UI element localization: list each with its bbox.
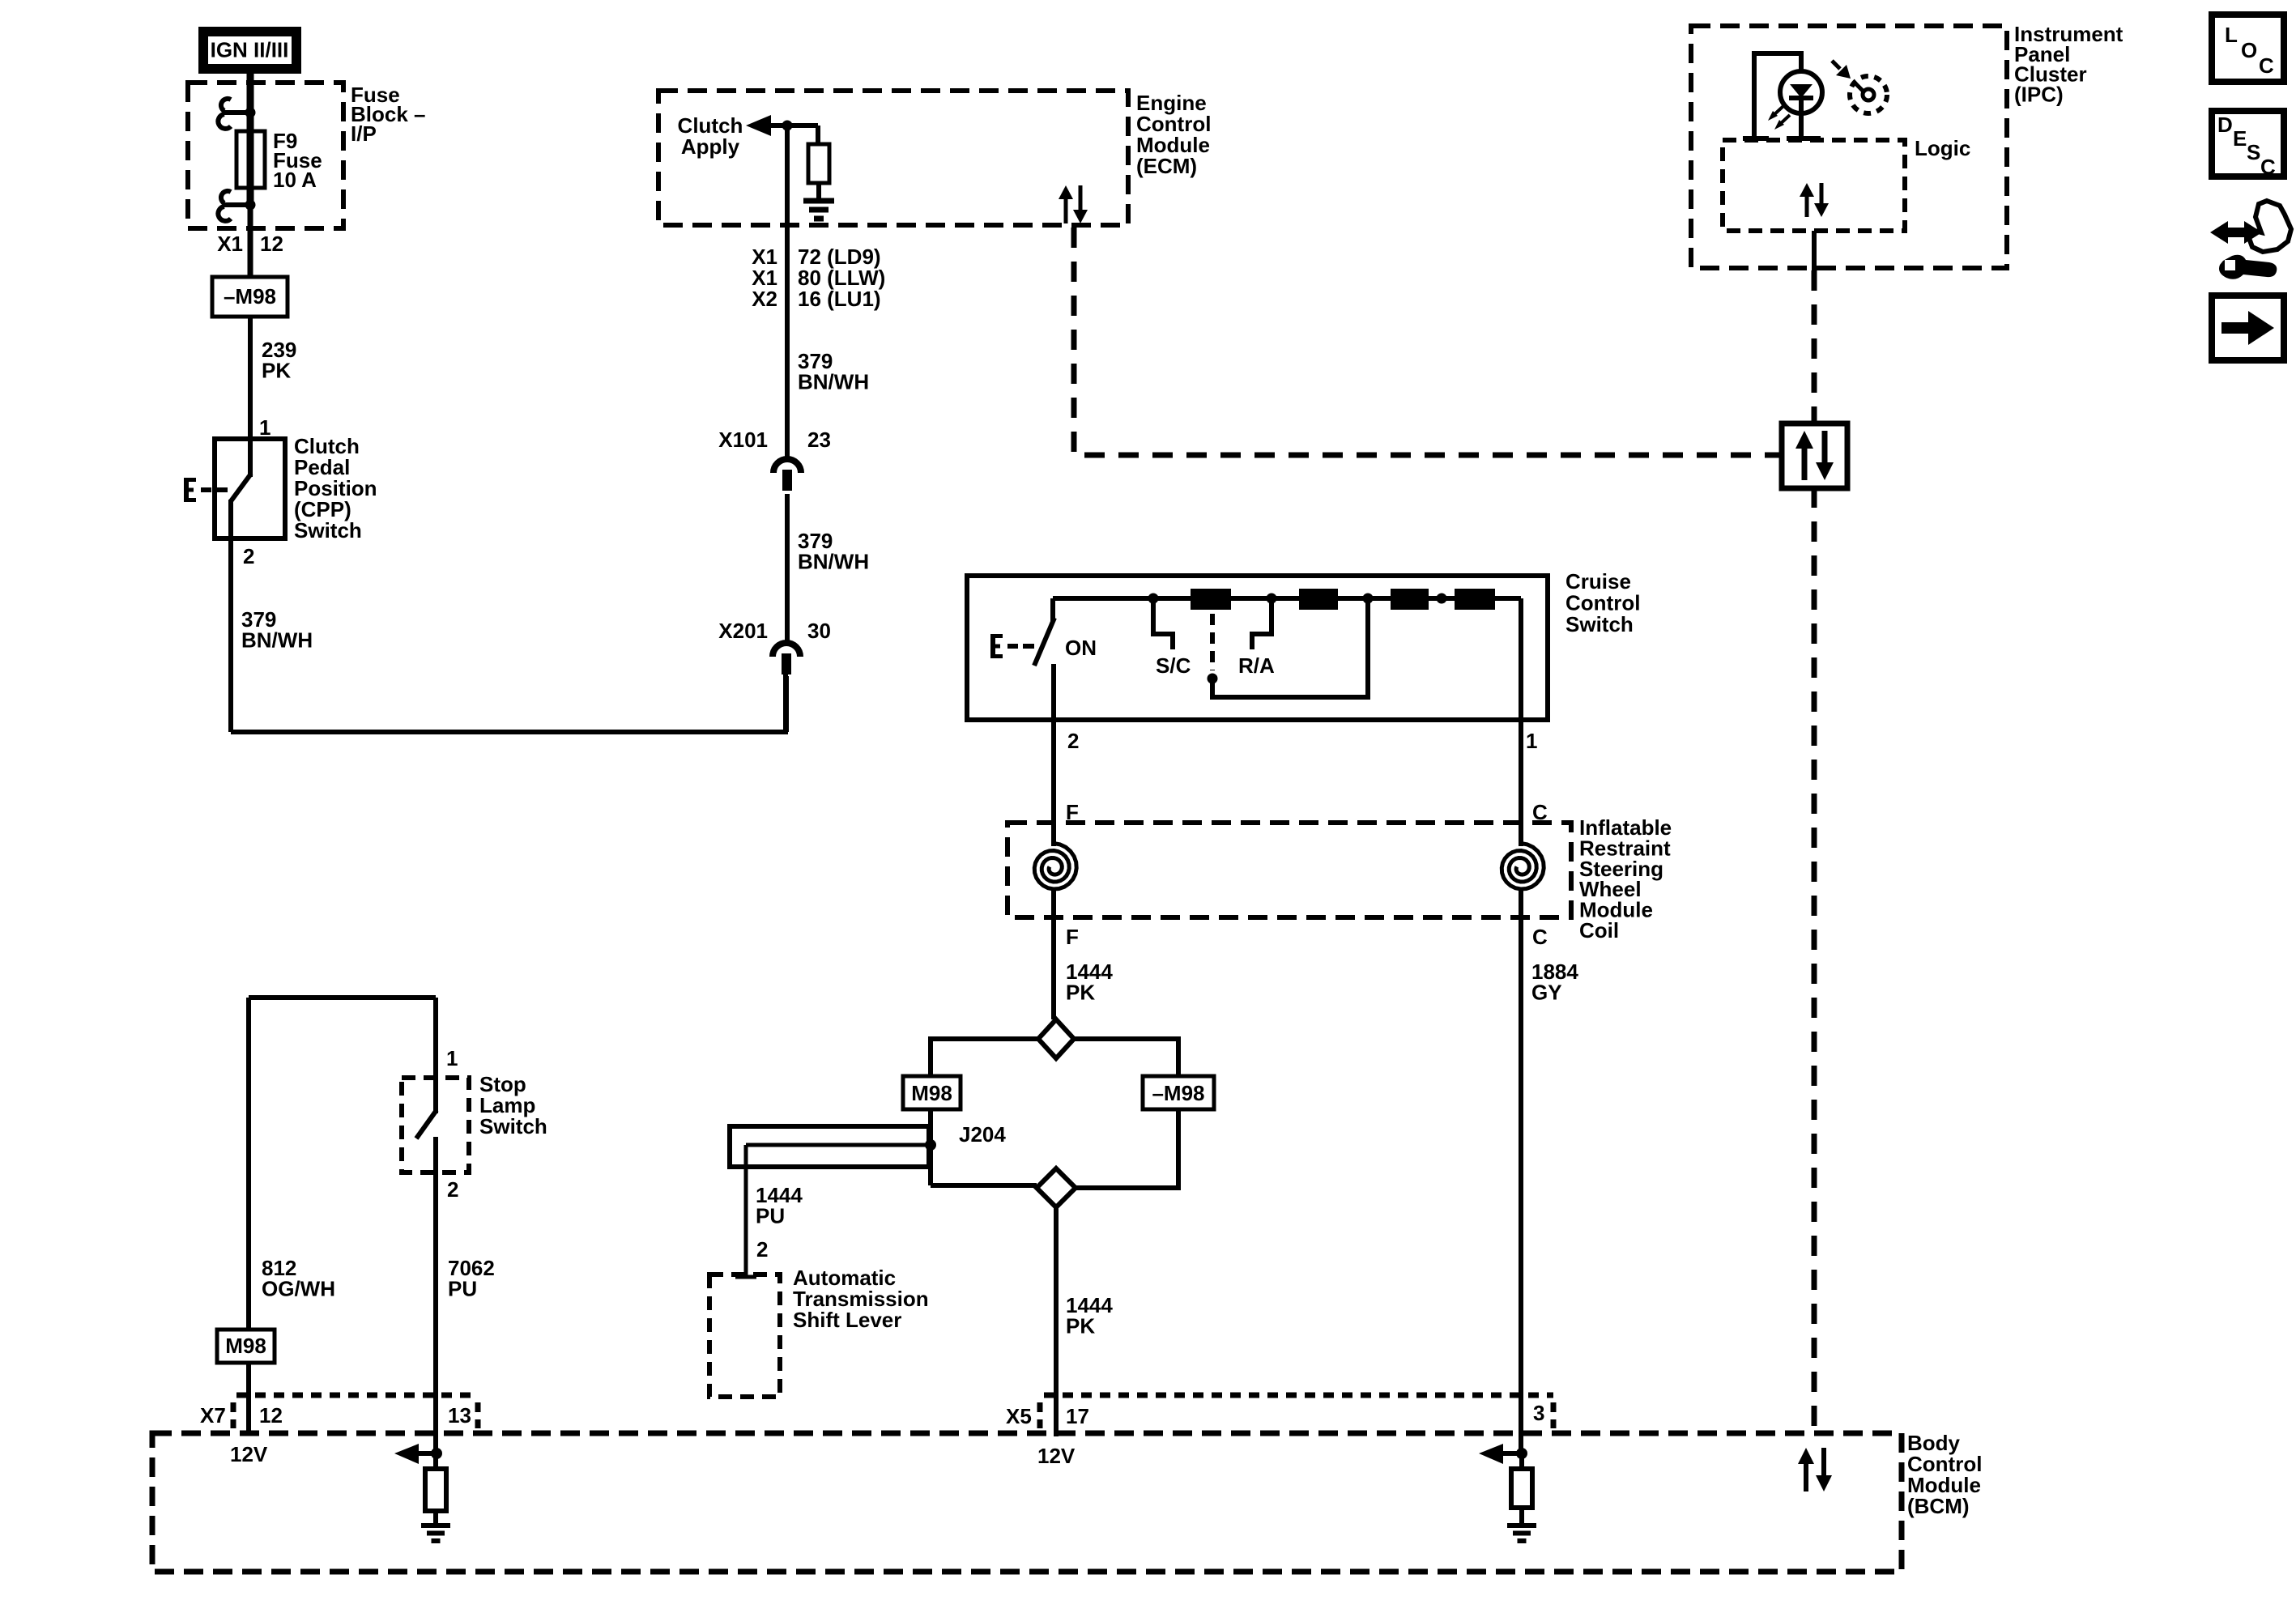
wire fuse to splice M98 <box>248 205 253 277</box>
splice box M98 (lower left) <box>217 1330 275 1363</box>
BCM pulldown wire (pin13) <box>433 1453 438 1526</box>
wire CPP to X201 jog <box>231 674 786 732</box>
wire to pull-up resistor <box>816 126 820 144</box>
svg-text:17: 17 <box>1066 1404 1089 1428</box>
left splice branch <box>931 1039 1038 1076</box>
svg-text:L: L <box>2225 23 2238 47</box>
BCM pulldown wire (pin3) <box>1519 1453 1524 1526</box>
BCM resistor (pin3) <box>1511 1469 1532 1508</box>
svg-text:PU: PU <box>448 1277 477 1301</box>
svg-text:1: 1 <box>446 1046 458 1070</box>
LED light rays <box>1772 106 1783 117</box>
splice box M98 <box>903 1076 961 1109</box>
switch resistor 1 <box>1191 589 1231 610</box>
svg-text:12: 12 <box>259 1403 283 1428</box>
ON switch upper contact <box>1050 598 1055 621</box>
svg-text:13: 13 <box>448 1403 471 1428</box>
cruise indicator LED <box>1780 71 1822 113</box>
X5 tick left <box>1037 1402 1043 1428</box>
fuse F9 body <box>247 113 254 205</box>
left coil exit wire <box>1051 888 1056 1019</box>
right splice branch <box>1074 1039 1178 1076</box>
serial data dashed wire to BCM <box>1812 487 1817 1432</box>
switch resistor 3 <box>1391 589 1429 610</box>
connector X5 dotted row <box>1044 1393 1553 1398</box>
junction dot pin 13 <box>431 1448 442 1459</box>
switch internal top bus <box>1053 596 1521 601</box>
svg-text:C: C <box>2259 53 2274 78</box>
in-line connector X201 <box>773 643 800 657</box>
ECM serial data arrows <box>1059 185 1073 199</box>
svg-text:2: 2 <box>756 1237 768 1262</box>
junction dot set/coast <box>1208 674 1218 684</box>
right clockspring coil <box>1502 844 1544 890</box>
svg-text:Control: Control <box>1565 591 1640 615</box>
power feed wire from IGN to fuse block <box>247 71 254 131</box>
svg-text:M98: M98 <box>911 1081 952 1105</box>
wire M98 to BCM pin 12 <box>246 1363 251 1433</box>
ON switch lower wire to pin 2 <box>1051 664 1056 846</box>
CPP switch contact wire <box>248 439 253 477</box>
svg-text:PK: PK <box>262 359 291 383</box>
svg-text:O: O <box>2241 38 2257 62</box>
right coil exit wire (1884 GY) <box>1519 888 1523 1453</box>
svg-text:10 A: 10 A <box>273 168 317 192</box>
svg-text:GY: GY <box>1531 981 1562 1005</box>
splice box -M98 <box>212 277 288 317</box>
junction dot J204 <box>925 1139 936 1151</box>
svg-text:S: S <box>2247 140 2260 164</box>
left branch lower wire <box>928 1109 933 1185</box>
stop lamp switch dashed box <box>402 1078 469 1172</box>
svg-text:Switch: Switch <box>479 1114 547 1138</box>
BCM dashed box (Body Control Module) <box>152 1433 1902 1572</box>
splice box arrows <box>1795 431 1813 449</box>
wire 1444 PK to BCM <box>1054 1207 1059 1436</box>
junction dot R/A tap <box>1267 594 1277 604</box>
LOC hyperlink icon <box>2212 15 2284 82</box>
fuse bottom hook clip <box>224 202 247 207</box>
svg-text:16 (LU1): 16 (LU1) <box>798 287 881 311</box>
gauge pointer arrow <box>1832 61 1840 69</box>
svg-text:D: D <box>2217 113 2233 137</box>
svg-text:F: F <box>1066 925 1079 949</box>
X5 tick right <box>1551 1402 1557 1428</box>
svg-text:Logic: Logic <box>1915 136 1970 160</box>
forward hyperlink icon <box>2212 296 2284 360</box>
svg-text:23: 23 <box>807 428 831 452</box>
tech2 scan tool icon <box>2210 221 2262 244</box>
svg-text:X201: X201 <box>718 619 768 643</box>
switch resistor 2 <box>1299 589 1338 610</box>
svg-text:X101: X101 <box>718 428 768 452</box>
in-line connector X101 <box>773 459 801 473</box>
serial data splice box <box>1782 423 1847 488</box>
BCM serial data arrows <box>1798 1448 1814 1464</box>
svg-text:(ECM): (ECM) <box>1136 154 1197 178</box>
svg-text:2: 2 <box>243 544 254 568</box>
svg-text:C: C <box>1532 925 1548 949</box>
CPP switch lower contact wire <box>228 500 233 732</box>
ON switch blade <box>1034 618 1054 666</box>
right branch lower wire <box>1076 1109 1178 1188</box>
shift lever wire end tick <box>735 1275 756 1279</box>
BCM resistor (pin13) <box>425 1469 446 1511</box>
splice diamond bottom <box>1037 1168 1076 1207</box>
svg-text:X5: X5 <box>1006 1404 1032 1428</box>
junction dot below fuse <box>245 200 256 211</box>
svg-text:1: 1 <box>1526 729 1537 753</box>
cruise input arrow <box>1479 1444 1503 1464</box>
ECM dashed box (Engine Control Module) <box>658 91 1128 225</box>
svg-text:–M98: –M98 <box>224 284 276 309</box>
svg-text:–M98: –M98 <box>1152 1081 1204 1105</box>
junction dot resistor chain <box>1437 594 1447 604</box>
svg-text:R/A: R/A <box>1238 653 1275 678</box>
set/coast dashed stem <box>1210 614 1215 670</box>
speedometer gauge icon <box>1850 76 1887 113</box>
ECM pull-up resistor <box>808 144 829 183</box>
IPC logic dashed box <box>1723 140 1905 231</box>
splice box -M98 (right) <box>1143 1076 1214 1109</box>
E dashes to ON switch <box>1007 644 1018 649</box>
wire resistor to ground <box>816 183 821 201</box>
R/A contact hook <box>1252 598 1272 649</box>
wire X101 to X201 <box>785 494 790 642</box>
fuse block dashed box (Fuse Block - I/P) <box>188 83 343 228</box>
ON switch E actuator <box>990 634 995 658</box>
junction dot pin 3 <box>1516 1448 1527 1459</box>
svg-text:12: 12 <box>260 232 283 256</box>
svg-text:Cruise: Cruise <box>1565 569 1631 594</box>
svg-text:X7: X7 <box>200 1403 226 1428</box>
logic serial data arrows <box>1800 183 1814 197</box>
X7 tick right <box>475 1402 481 1428</box>
svg-text:Switch: Switch <box>294 518 362 543</box>
left clockspring coil <box>1034 844 1076 890</box>
svg-text:Shift Lever: Shift Lever <box>793 1308 901 1332</box>
svg-text:Coil: Coil <box>1579 918 1619 943</box>
clutch pedal position switch box <box>215 439 285 538</box>
svg-text:30: 30 <box>807 619 831 643</box>
connector X7 dotted row <box>236 1393 478 1398</box>
stop lamp feed wire <box>249 995 436 1000</box>
clutch apply signal arrow <box>746 115 771 136</box>
junction dot above fuse <box>245 108 256 118</box>
E dashes to switch <box>201 487 211 492</box>
svg-text:12V: 12V <box>230 1442 268 1466</box>
ECM ground <box>803 198 834 204</box>
S/C contact hook <box>1153 598 1173 649</box>
cruise control switch box <box>967 576 1548 720</box>
svg-text:3: 3 <box>1533 1401 1544 1425</box>
svg-text:PK: PK <box>1066 1314 1095 1338</box>
svg-text:PU: PU <box>756 1204 785 1228</box>
svg-text:I/P: I/P <box>351 121 377 146</box>
svg-text:IGN II/III: IGN II/III <box>211 38 289 62</box>
serial data dashed wire IPC down <box>1812 270 1817 423</box>
stop lamp wire upper <box>433 998 438 1113</box>
junction dot clutch apply <box>782 121 793 131</box>
inflatable restraint coil dashed box <box>1007 823 1571 917</box>
left feed wire down to M98 <box>246 998 251 1330</box>
switch resistor 4 <box>1455 589 1495 610</box>
svg-text:2: 2 <box>1067 729 1079 753</box>
svg-text:2: 2 <box>447 1177 458 1202</box>
junction dot S/C tap <box>1148 594 1159 604</box>
svg-text:BN/WH: BN/WH <box>798 370 869 394</box>
svg-text:PK: PK <box>1066 981 1095 1005</box>
svg-text:E: E <box>2233 126 2247 151</box>
svg-text:J204: J204 <box>959 1122 1006 1147</box>
svg-text:12V: 12V <box>1037 1444 1076 1468</box>
svg-text:M98: M98 <box>225 1334 266 1358</box>
J204 junction block <box>931 1183 1037 1188</box>
BCM ground (pin13) <box>421 1523 450 1528</box>
X7 tick left <box>231 1402 236 1428</box>
logic box wire stub <box>1812 231 1817 272</box>
svg-text:(BCM): (BCM) <box>1907 1494 1970 1518</box>
indicator frame base ticks <box>1743 136 1769 141</box>
svg-text:C: C <box>2260 155 2276 179</box>
J204 internal wire <box>746 1143 931 1147</box>
IPC dashed box (Instrument Panel Cluster) <box>1691 26 2007 268</box>
stop lamp switch blade <box>416 1110 437 1138</box>
wire X201 stub down <box>784 676 789 732</box>
switch right wire to pin 1 <box>1519 598 1523 846</box>
automatic transmission shift lever dashed box <box>709 1274 780 1397</box>
IPC indicator lamp frame <box>1754 53 1801 138</box>
BCM ground (pin3) <box>1507 1523 1536 1528</box>
serial data dashed wire ECM to splice box <box>1074 228 1782 455</box>
svg-text:OG/WH: OG/WH <box>262 1277 335 1301</box>
svg-text:1: 1 <box>259 415 270 440</box>
DESC hyperlink icon <box>2212 111 2284 177</box>
splice diamond top <box>1038 1019 1074 1058</box>
svg-text:X2: X2 <box>752 287 777 311</box>
battery feed box IGN II/III <box>198 27 301 74</box>
junction dot loop top <box>1363 594 1374 604</box>
svg-text:Switch: Switch <box>1565 612 1634 636</box>
stop lamp input arrow <box>394 1444 419 1464</box>
wire 239 PK <box>248 317 253 439</box>
CPP switch E actuator symbol <box>184 478 189 502</box>
set/coast return loop <box>1212 601 1368 697</box>
svg-text:BN/WH: BN/WH <box>798 550 869 574</box>
svg-text:X1: X1 <box>217 232 243 256</box>
svg-text:BN/WH: BN/WH <box>241 628 313 653</box>
svg-text:Apply: Apply <box>681 134 740 159</box>
svg-text:S/C: S/C <box>1156 653 1191 678</box>
svg-text:ON: ON <box>1065 636 1097 660</box>
ECM main wire down <box>785 126 790 458</box>
CPP switch blade <box>231 474 251 501</box>
svg-text:(IPC): (IPC) <box>2014 82 2064 106</box>
fuse top hook clip <box>224 110 247 115</box>
stop lamp wire lower to BCM <box>433 1137 438 1453</box>
wire 1444 PU down <box>744 1145 748 1277</box>
